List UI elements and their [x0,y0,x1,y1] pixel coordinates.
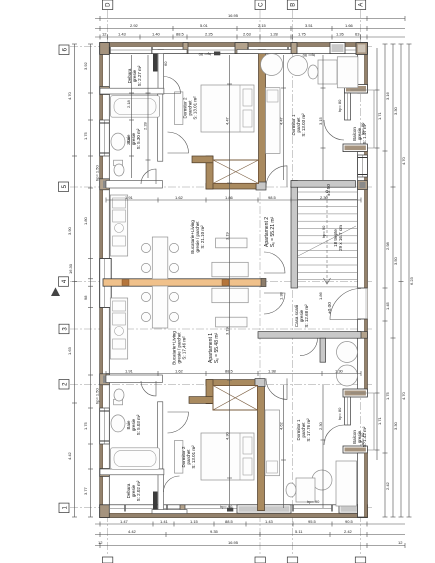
top dim labels [102,13,360,37]
outer wall right band middle [358,152,368,389]
pier bottom-left corner [100,505,110,518]
svg-text:S: 2.27 m²: S: 2.27 m² [137,65,142,86]
bed dormitor1 bottom (along wall) [265,410,280,476]
svg-text:1.66: 1.66 [345,23,354,28]
svg-text:12: 12 [98,540,103,545]
svg-text:S: 17.76 m²: S: 17.76 m² [306,418,311,442]
svg-text:12: 12 [102,32,107,37]
svg-text:2.05: 2.05 [126,136,131,145]
interior wall: bath bottom (top apt) [106,181,162,189]
svg-text:A: A [359,3,365,7]
svg-text:6.23: 6.23 [409,276,414,285]
svg-text:3.90: 3.90 [67,226,72,235]
svg-text:4.42: 4.42 [128,529,137,534]
interior dim chain bottom apt [106,371,361,376]
wardrobe dormitor2 top [175,92,183,125]
svg-text:5.11: 5.11 [295,529,303,534]
balcony top return wall [343,144,367,152]
stairwell wall top (gray) [291,181,356,188]
svg-text:4.62: 4.62 [279,421,284,430]
door arc debara bottom [164,476,180,492]
dimension frame top line 1 [95,16,405,21]
label dormitor2 top [183,96,198,120]
axis bubble D top [102,0,112,10]
svg-text:2.63: 2.63 [243,32,252,37]
svg-text:29 x 16.7 cm: 29 x 16.7 cm [338,225,343,251]
timber wall W2b end cap [255,379,265,387]
sofa top apt [212,262,248,277]
svg-text:3.19: 3.19 [225,231,230,240]
label balcon top [352,123,367,144]
kitchen counter top apt [110,195,127,256]
timber wall W1 end cap [256,182,266,190]
balcony bottom parapet [345,397,351,425]
dimension frame left line 1 [72,44,77,517]
balcony top slab edge [351,90,375,148]
pier top C [235,43,248,54]
door arc balcony bottom [324,425,344,445]
window bottom 1 ticks [110,505,180,512]
pier bottom gray (W1b junction) [237,505,291,513]
stairwell wall left (gray) [291,181,298,288]
dining table top apt [141,237,178,279]
pier top-right corner [356,43,367,55]
sill band top window 2 [237,50,291,54]
shaft stub dark (top) [153,53,158,72]
dimension frame top line 3 ticks [95,35,405,40]
balcony top step wall [345,85,368,94]
door arc casa scarii to hall [300,338,318,356]
label apartament1 [208,332,220,363]
interior wall: debara top (bottom apt) [100,469,164,475]
round tubs casa scarii bottom [337,342,358,363]
axis bubble B bottom [287,557,297,563]
svg-text:hp= 80: hp= 80 [360,432,365,445]
svg-text:16.95: 16.95 [228,540,239,545]
sill band bottom window 1 [152,510,187,514]
svg-text:12: 12 [398,540,403,545]
pier top B [291,43,297,54]
svg-text:88.5: 88.5 [176,32,185,37]
grid axis B [292,10,294,556]
window right wall (dormitor1 top) [358,155,368,177]
interior dim vertical lines [129,55,326,508]
pier left bath2 junction [100,374,110,385]
svg-text:hp= 80: hp= 80 [337,99,342,112]
radiator bottom wall [227,508,233,512]
label bucatarie bottom [172,331,187,365]
door arc bath top [141,169,156,184]
svg-text:2.98: 2.98 [385,241,390,250]
grid axis A [360,10,362,556]
axis bubble A bottom [355,557,365,563]
tv table top apt [216,238,247,248]
label debara top [127,65,142,86]
svg-text:3.30: 3.30 [393,106,398,115]
svg-text:1.86: 1.86 [318,291,323,300]
door arc dormitor1 top [266,166,287,187]
label dormitor1 bottom [296,418,311,442]
label balcon bottom [352,426,367,447]
svg-text:4.47: 4.47 [279,116,284,125]
timber wall W4 horizontal (top apt) [192,156,213,163]
svg-text:hp= 90: hp= 90 [198,52,211,57]
svg-text:95.5: 95.5 [308,519,317,524]
door arc hall to living top [264,252,285,273]
outer wall right band upper [358,43,368,93]
stair treads [298,192,358,287]
pier left bath junction [100,179,110,190]
timber wall W1b vertical (apartment1 bedroom divider) [258,380,265,511]
axis bubble C bottom [255,557,265,563]
axis bubble 6 [59,45,69,55]
svg-text:3.30: 3.30 [393,421,398,430]
window bottom 3 [293,505,332,512]
axis bubble 3 [59,324,69,334]
wardrobe X-braced (top apt) [213,160,259,183]
door arc dormitor1 bottom [266,378,287,399]
balcony bottom slab edge [351,393,375,450]
svg-text:2.15: 2.15 [258,23,267,28]
svg-text:1.45: 1.45 [385,301,390,310]
svg-text:2.28: 2.28 [143,121,148,130]
svg-text:Sₓ = 55.48 m²: Sₓ = 55.48 m² [214,332,220,363]
door arc bath bottom [141,381,156,396]
door arc debara top [164,77,181,94]
label debara bottom [126,480,141,501]
axis bubble C top [255,0,265,10]
svg-text:1.41: 1.41 [160,519,169,524]
pier top hatch 1 [330,43,345,54]
grid axis 4 [60,281,372,283]
wardrobe dormitor2 bottom [175,441,183,474]
window left 3 [100,408,110,444]
outer wall left brown stripe [100,43,103,518]
label casa scarii [294,304,309,328]
svg-text:S: 13.01 m²: S: 13.01 m² [191,445,196,469]
svg-text:5.01: 5.01 [200,23,209,28]
axis bubble 5 [59,182,69,192]
dimension frame left line 2 [88,44,93,517]
svg-text:1.63: 1.63 [67,346,72,355]
label apartament2 [264,216,276,247]
outer wall bottom brown stripe [100,513,368,517]
label stairs [333,225,343,251]
outer wall right stripe upper [364,43,367,93]
door arc hall to living bottom [264,293,285,314]
entrance opening right wall [358,288,368,319]
washbasin bottom [111,415,125,432]
dimension frame top line 2 [95,26,405,31]
desk dormitor1 top [308,60,337,84]
svg-text:hp= 1.50: hp= 1.50 [95,388,100,404]
svg-text:98.5: 98.5 [268,195,277,200]
stair walk line with arrow [324,190,331,284]
pier right hall junction [358,332,368,339]
svg-text:C: C [258,2,264,7]
svg-text:90.5: 90.5 [345,519,354,524]
svg-text:B: B [291,3,297,7]
round chairs dormitor1 bottom [312,470,332,490]
svg-text:S: 5.30 m²: S: 5.30 m² [136,128,141,149]
svg-text:1.75: 1.75 [83,421,88,430]
svg-text:1.26: 1.26 [336,32,345,37]
svg-text:S: 13.03 m²: S: 13.03 m² [301,113,306,137]
timber wall W2 horizontal (top apt) [206,183,256,189]
svg-text:1.38: 1.38 [279,291,284,300]
grid axis 5 [70,186,372,188]
washbasin top [111,133,125,150]
timber wall W3 vertical step (top apt) [206,156,213,189]
svg-text:16.95: 16.95 [228,13,239,18]
svg-text:S: 5.03 m²: S: 5.03 m² [136,414,141,435]
svg-text:3.51: 3.51 [305,23,314,28]
svg-text:1.62: 1.62 [175,369,184,374]
pier left debara junction [100,87,110,95]
outer wall top band [100,43,368,54]
shaft stub dark (bottom) [153,492,158,511]
interior wall: debara right (bottom) [158,475,164,511]
label dormitor2 bottom [181,445,196,469]
label baie bottom [126,414,141,435]
svg-text:S: 17,46 m²: S: 17,46 m² [182,336,187,360]
outer wall right stripe middle [364,152,367,389]
sofa dormitor1 top [337,57,358,88]
bottom dim labels [98,519,403,545]
svg-text:S: 13.01 m²: S: 13.01 m² [193,96,198,120]
outer wall right stripe lower [364,453,367,517]
svg-text:2.18: 2.18 [126,99,131,108]
svg-text:2.30: 2.30 [320,195,329,200]
interior wall: bath right (bottom) [158,402,163,469]
svg-text:1.38: 1.38 [268,369,277,374]
svg-text:88.5: 88.5 [225,519,234,524]
stair break line [298,226,356,256]
svg-text:3.16: 3.16 [385,91,390,100]
pier bottom mid1 [180,505,185,513]
svg-text:3.77: 3.77 [83,486,88,495]
svg-text:1.43: 1.43 [265,519,274,524]
svg-text:4.30: 4.30 [225,431,230,440]
grid axis D [107,10,109,556]
window left 2 (living, tall french) [100,259,112,308]
svg-text:1.40: 1.40 [152,32,161,37]
bed dormitor1 top (along wall) [266,88,281,154]
door arc dormitor2 top [168,132,189,153]
axis bubble D bottom [102,557,112,563]
svg-text:S: 21.10 m²: S: 21.10 m² [200,225,205,249]
svg-text:hp= 90: hp= 90 [302,53,315,58]
axis bubble A top [355,0,365,10]
timber wall W2b horizontal (bottom apt) [206,380,258,386]
wardrobe X-braced (bottom apt) [213,386,258,411]
kitchen counter bottom apt [110,298,127,359]
pier left debara2 junction [100,469,110,477]
svg-text:1.75: 1.75 [83,131,88,140]
interior wall: bath top (bottom apt) [106,375,162,383]
svg-text:2.25: 2.25 [205,32,214,37]
axis bubble B top [287,0,297,10]
outer wall top brown stripe [100,43,368,47]
window top 1 ticks [110,47,183,54]
svg-text:hp= 80: hp= 80 [360,122,365,135]
door arc dormitor2 bottom [168,412,189,433]
party wall band (orange) [103,278,266,286]
svg-text:S: 12.68 m²: S: 12.68 m² [304,304,309,328]
hall wall bottom (gray) [258,332,361,339]
svg-text:1.30: 1.30 [335,369,344,374]
svg-text:hp= 90: hp= 90 [307,499,320,504]
svg-text:1.15: 1.15 [190,519,199,524]
grid axis 2 [70,384,372,386]
dimension frame right lines [375,44,412,517]
svg-text:60: 60 [163,61,168,66]
north triangle marker [51,287,60,296]
bathtub top [111,96,160,118]
axis bubble 1 [59,503,69,512]
interior wall: bath right (top) [158,94,163,161]
right dim labels [377,91,414,490]
svg-text:4.70: 4.70 [401,391,406,400]
grid axis C [259,10,261,556]
sofa dormitor1 bottom [336,461,357,506]
bed dormitor2 bottom [201,433,254,480]
pier bottom-right corner [358,505,368,518]
svg-text:hp= 80: hp= 80 [337,407,342,420]
wall below hall (gray, vertical) [320,338,326,362]
interior wall: debara right (top) [158,50,164,94]
svg-text:2.42: 2.42 [344,529,353,534]
svg-text:1.43: 1.43 [118,32,127,37]
svg-text:4.70: 4.70 [67,91,72,100]
svg-text:4.47: 4.47 [225,116,230,125]
svg-text:4.42: 4.42 [67,451,72,460]
dimension frame bottom line 2 [95,532,405,537]
door arc balcony top [324,120,344,140]
label bucatarie top [190,220,205,254]
grid axis 1 [70,507,372,509]
svg-text:1.71: 1.71 [377,111,382,120]
window top 2 ticks [188,47,356,54]
dimension frame bottom line 3 [95,543,405,548]
svg-text:1.75: 1.75 [298,32,307,37]
dining table bottom apt [141,286,178,328]
svg-text:1.91: 1.91 [125,195,134,200]
outer wall right band lower [358,453,368,517]
sill band top window 1 [152,50,187,54]
pier top-left corner [100,43,110,55]
svg-text:1.71: 1.71 [377,416,382,425]
svg-text:2.92: 2.92 [130,23,139,28]
svg-text:9.35: 9.35 [210,529,219,534]
svg-text:1.47: 1.47 [120,519,129,524]
label baie top [126,128,141,149]
svg-text:4.70: 4.70 [401,156,406,165]
grid axis 3 [70,328,372,330]
svg-text:63: 63 [355,32,360,37]
axis bubble 2 [59,380,69,390]
toilet bottom [114,389,124,405]
svg-text:1.62: 1.62 [175,195,184,200]
svg-text:3.19: 3.19 [225,326,230,335]
label dormitor1 top [291,113,306,137]
pier bottom gray 2 [339,505,365,513]
tv table bottom apt [216,317,247,327]
sofa bottom apt [212,288,248,303]
balcony bottom return wall [343,446,367,453]
balcony bottom step wall [343,389,367,397]
svg-text:1.28: 1.28 [270,32,279,37]
svg-text:1.75: 1.75 [385,391,390,400]
svg-text:2.42: 2.42 [385,481,390,490]
outer wall bottom band [100,505,368,518]
door arc entrance [330,289,361,320]
axis bubble 4 [59,277,69,287]
svg-text:D: D [106,2,112,7]
dimension frame bottom line 1 [95,522,405,527]
interior dim chain top apt [106,198,361,203]
svg-text:hp= 90: hp= 90 [321,225,326,238]
timber wall W4b horizontal (bottom apt) [189,397,213,404]
left dim labels [67,61,88,495]
svg-text:3.92: 3.92 [83,61,88,70]
grid axis 6 [70,46,372,48]
svg-text:hp= 1.50: hp= 1.50 [95,165,100,181]
bed dormitor2 top [201,85,254,132]
round chairs dormitor1 top [261,54,283,76]
svg-text:98: 98 [83,295,88,300]
bathtub bottom [111,448,160,470]
balcony top parapet [345,93,351,120]
svg-text:1.91: 1.91 [125,369,134,374]
desk dormitor1 bottom [286,478,315,502]
pier top mid [183,43,188,54]
svg-text:3.15: 3.15 [318,116,323,125]
radiator top wall [214,52,220,56]
svg-text:2.30: 2.30 [318,421,323,430]
pier right stair junction [358,181,368,190]
timber wall W1 vertical (apartment2 bedroom divider) [259,50,266,183]
svg-text:16.30: 16.30 [68,263,73,274]
svg-text:S: 2.02 m²: S: 2.02 m² [136,480,141,501]
timber wall W3b vertical step (bottom apt) [206,380,213,404]
svg-text:Sₓ = 55.21 m²: Sₓ = 55.21 m² [270,216,276,247]
svg-text:±0.00: ±0.00 [327,302,333,314]
window left 1 (hp 1.50) [100,120,110,156]
window bottom 2 (dormitor2) [185,508,237,510]
svg-text:1.80: 1.80 [83,216,88,225]
toilet top [114,160,124,176]
interior wall: debara bottom (top apt) [100,88,164,94]
outer wall left band [100,43,110,518]
svg-text:3.50: 3.50 [393,256,398,265]
